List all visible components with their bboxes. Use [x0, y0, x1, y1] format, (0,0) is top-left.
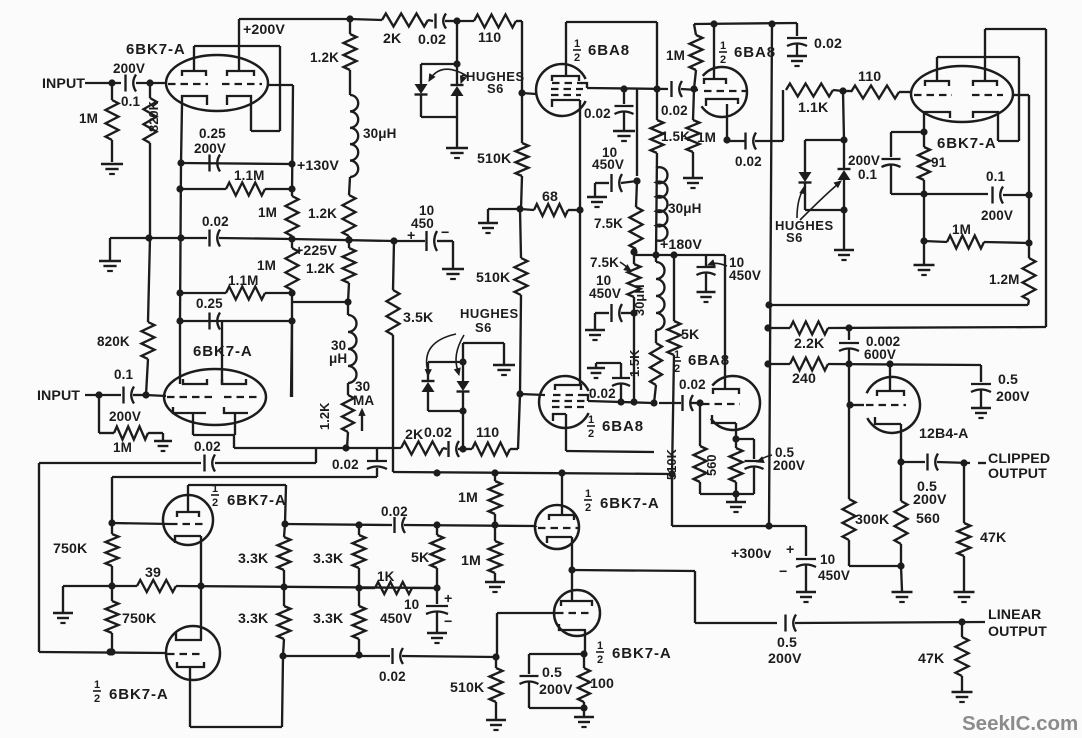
resistor 1K [359, 587, 375, 589]
inductor 30uH mid [656, 167, 667, 241]
svg-text:30μH: 30μH [632, 284, 647, 316]
svg-text:1.1K: 1.1K [798, 100, 829, 116]
tube U11 cathode [547, 537, 572, 543]
resistor 1.2K mid lower [343, 248, 356, 283]
tube U1 6BK7-A envelope [166, 55, 268, 111]
svg-text:1.2K: 1.2K [308, 206, 337, 221]
svg-text:OUTPUT: OUTPUT [988, 466, 1047, 482]
capacitor 0.5 200V U6 [736, 438, 754, 440]
resistor 1M 6BA8-2 cathode [693, 89, 694, 120]
svg-text:820K: 820K [146, 100, 161, 132]
svg-text:0.02: 0.02 [379, 669, 406, 684]
svg-text:1M: 1M [257, 258, 276, 273]
ground 47K clipped [954, 591, 975, 594]
capacitor 0.02 top-right bypass [796, 23, 798, 36]
svg-text:6BA8: 6BA8 [688, 352, 730, 369]
resistor 91 [923, 132, 925, 147]
svg-text:3.3K: 3.3K [238, 611, 269, 627]
ground 47K linear [952, 691, 973, 694]
svg-text:450V: 450V [592, 157, 624, 172]
resistor 1.2K mid upper [343, 195, 356, 236]
wire cathode ladder column [180, 163, 181, 321]
wire 1.1M row upper [180, 188, 226, 190]
tube U7 left plate [925, 81, 949, 86]
node input junction [108, 79, 115, 86]
resistor 39 [112, 585, 137, 587]
wire U11 grid [535, 526, 537, 527]
capacitor 0.1 right [991, 187, 993, 204]
wire U11 cathode out [572, 570, 695, 571]
svg-text:HUGHES: HUGHES [775, 218, 834, 233]
ground input 1 [101, 163, 123, 166]
svg-text:S6: S6 [487, 81, 504, 96]
svg-text:+: + [444, 591, 452, 607]
svg-text:−: − [444, 614, 452, 630]
tube U7 right cathode [973, 112, 998, 121]
svg-text:1M: 1M [79, 111, 98, 126]
svg-text:HUGHES: HUGHES [460, 306, 519, 321]
svg-text:0.1: 0.1 [121, 94, 140, 109]
ground 68 [487, 209, 489, 222]
svg-text:47K: 47K [980, 530, 1007, 546]
tube U10 grid dashes [167, 653, 204, 655]
svg-text:1: 1 [674, 349, 680, 361]
svg-text:110: 110 [858, 69, 881, 85]
svg-text:1.1M: 1.1M [234, 168, 264, 183]
wire 0.02 row +225V rail [110, 237, 207, 239]
wire grid ladder column [292, 85, 293, 196]
wire grid column 12B4 [848, 364, 850, 499]
svg-text:+: + [786, 542, 794, 558]
resistor 110 top [457, 20, 474, 22]
svg-text:47K: 47K [918, 651, 945, 667]
resistor 1.5K 6BA8-2 [656, 89, 658, 120]
wire fb box left [39, 462, 201, 464]
resistor 510K bottom [495, 657, 497, 668]
arrow to cap +180 [711, 263, 727, 266]
svg-text:200V: 200V [768, 651, 802, 667]
svg-text:0.02: 0.02 [589, 386, 616, 401]
arrow 7.5K [620, 262, 629, 269]
ground 1M drive [485, 581, 505, 584]
wire long B+ column [769, 24, 772, 526]
svg-text:0.02: 0.02 [679, 377, 706, 392]
svg-text:1: 1 [720, 40, 726, 52]
tube U8 12B4-A envelope [867, 377, 920, 433]
svg-text:6BK7-A: 6BK7-A [109, 686, 169, 703]
svg-text:LINEAR: LINEAR [988, 607, 1041, 623]
capacitor 0.02 to U6 grid [681, 395, 683, 411]
wire U6 cathode net bottom [700, 493, 754, 495]
resistor 3.3K d [353, 606, 366, 639]
svg-text:200V: 200V [109, 409, 141, 424]
wire up to 1.1K [782, 90, 784, 141]
resistor 1.1M upper [226, 183, 265, 196]
svg-text:1K: 1K [377, 569, 395, 584]
wire cathode feedback row [234, 447, 401, 449]
svg-text:2: 2 [588, 428, 594, 440]
tube U7 left cathode [924, 112, 950, 121]
tube U7 grid dashes [914, 94, 952, 96]
svg-text:1.1M: 1.1M [228, 273, 258, 288]
svg-text:100: 100 [590, 676, 614, 692]
capacitor 0.02 screen bypass [623, 89, 625, 104]
svg-text:3.3K: 3.3K [313, 551, 344, 567]
resistor 300K [843, 499, 856, 540]
tube U8 plate [877, 391, 904, 396]
capacitor 0.02 interstage [670, 81, 672, 97]
tube U12 plate [561, 601, 592, 606]
svg-text:−: − [441, 225, 449, 241]
diode S6-2b [457, 381, 470, 391]
wire 1.2M bottom row [769, 304, 1028, 306]
svg-text:1: 1 [585, 488, 591, 500]
ground U6 [735, 494, 737, 501]
capacitor 0.002 600V [848, 328, 850, 340]
wire screen row [587, 88, 668, 89]
resistor 68 [488, 208, 520, 210]
hughes S6 pair 2 [428, 361, 463, 363]
svg-text:1.2K: 1.2K [310, 50, 339, 65]
svg-text:1.2M: 1.2M [989, 272, 1019, 287]
wire U8 grid [850, 404, 864, 406]
tube U2 right plate [222, 379, 246, 384]
svg-text:1.2K: 1.2K [317, 402, 332, 430]
capacitor 10 450V bias2 [436, 588, 438, 604]
svg-text:1: 1 [588, 414, 594, 426]
svg-text:MA: MA [353, 393, 374, 408]
tube U3 half-6BA8 pentode [536, 64, 586, 116]
resistor 3.3K c [278, 606, 291, 639]
svg-text:12B4-A: 12B4-A [919, 426, 969, 442]
resistor 7.5K lower [633, 252, 635, 264]
capacitor 0.25 upper [208, 155, 210, 172]
tube U5 half-6BA8 pentode [539, 376, 589, 428]
capacitor 0.1 input 1 [124, 75, 126, 92]
svg-text:7.5K: 7.5K [594, 216, 623, 231]
tube U4 cathode [706, 99, 738, 106]
wire input 1 [85, 82, 121, 84]
svg-text:+200V: +200V [243, 22, 285, 38]
hughes S6 pair 1 [456, 21, 458, 64]
svg-text:240: 240 [792, 371, 816, 387]
wire U5 grid [520, 394, 545, 395]
ground 91 row [923, 241, 925, 264]
svg-text:6BK7-A: 6BK7-A [126, 41, 186, 58]
wire 820K to +225V rail [149, 143, 151, 238]
capacitor 10 450V row2 [621, 312, 634, 314]
wire U2 cathodes join [193, 434, 235, 436]
svg-text:110: 110 [478, 30, 501, 46]
svg-text:0.02: 0.02 [381, 504, 408, 519]
resistor 1M fb [924, 241, 947, 242]
svg-text:0.02: 0.02 [418, 32, 446, 48]
tube U12 cathode [559, 624, 586, 630]
capacitor 10 450V +180 [705, 255, 707, 266]
resistor 2.2K [790, 322, 828, 335]
capacitor 0.02 U5 bypass [620, 384, 622, 402]
wire fb box inner [111, 477, 113, 523]
wire 1M bottom jog [292, 301, 348, 303]
resistor 560 U6 [730, 448, 743, 482]
capacitor 0.02 ladder [208, 230, 210, 247]
svg-text:30μH: 30μH [363, 126, 396, 141]
wire linear output [695, 622, 777, 624]
svg-text:820K: 820K [97, 334, 130, 349]
resistor 240 [790, 358, 828, 371]
ground 300K 560 [892, 591, 913, 594]
svg-text:0.1: 0.1 [858, 167, 877, 182]
wire U9 grid [112, 523, 170, 524]
resistor 7.5K upper [636, 181, 637, 207]
capacitor 10 450 electrolytic [394, 240, 425, 242]
svg-text:0.02: 0.02 [202, 214, 229, 229]
tube U1 grid dashes [168, 83, 208, 85]
svg-text:0.1: 0.1 [114, 367, 133, 382]
svg-text:0.02: 0.02 [661, 103, 688, 118]
tube U12 half-6BK7 [554, 590, 600, 636]
svg-text:750K: 750K [122, 611, 157, 627]
tube U5 grid dashes [553, 394, 584, 396]
svg-text:0.02: 0.02 [194, 439, 221, 454]
wire interstage row [285, 524, 392, 525]
svg-text:0.1: 0.1 [986, 169, 1005, 184]
svg-text:6BA8: 6BA8 [734, 44, 776, 61]
svg-text:30: 30 [355, 379, 370, 394]
tube U1 left plate [182, 71, 206, 76]
resistor 1M 6BA8 2 grid [694, 24, 696, 35]
wire 300K 560 bottom [849, 565, 901, 567]
resistor 750K upper [111, 523, 113, 534]
diode S6-1b [451, 84, 464, 86]
svg-text:0.5: 0.5 [542, 665, 562, 681]
svg-text:200V: 200V [981, 208, 1013, 223]
svg-text:510K: 510K [476, 270, 511, 286]
diode S6-3b [838, 168, 851, 170]
wire 0.25 cap row [181, 163, 292, 164]
resistor 5K mid [673, 255, 675, 321]
resistor 3.3K a [284, 524, 285, 537]
svg-text:2: 2 [674, 363, 680, 375]
arrow to 0.5 cap [760, 455, 772, 460]
svg-text:2: 2 [597, 654, 603, 666]
svg-text:10: 10 [404, 597, 419, 612]
wire plate decoupling column [636, 89, 638, 176]
capacitor 0.02 bottom [391, 648, 393, 664]
svg-text:2: 2 [574, 52, 580, 64]
tube U4 plate [704, 79, 726, 84]
svg-text:+225V: +225V [295, 243, 337, 259]
hughes S6 pair 3 [843, 91, 844, 140]
ground S6 pair 2 link [462, 343, 464, 362]
svg-text:1M: 1M [461, 553, 481, 569]
tube U5 plate [555, 385, 581, 390]
capacitor 0.02 interstage 2 [393, 517, 395, 533]
capacitor 0.5 200V U12 [529, 653, 584, 655]
svg-text:6BK7-A: 6BK7-A [937, 135, 997, 152]
inductor 30uH col2 [655, 255, 657, 262]
wire 91 to 1M row [923, 194, 925, 241]
wire U7 plate-cathode loop [937, 56, 1019, 58]
tube U8 grid dashes [866, 404, 906, 406]
wire +200V to right plate [238, 19, 240, 71]
svg-text:68: 68 [542, 189, 558, 205]
wire 110 up to 510K [518, 394, 520, 449]
ground S6 pair 1 [446, 147, 468, 150]
wire U3 control grid [522, 93, 536, 94]
arrow to S6-2 diodes [427, 334, 456, 372]
ground input 2 [154, 440, 172, 443]
ground 0.02 row [109, 238, 111, 260]
resistor 2K lower [401, 442, 443, 455]
svg-text:510K: 510K [477, 151, 512, 167]
tube U9 half-6BK7 upper [163, 495, 213, 545]
svg-text:560: 560 [916, 511, 940, 527]
svg-text:750K: 750K [53, 541, 88, 557]
svg-text:1M: 1M [458, 490, 478, 506]
tube U2 grid dashes [167, 396, 212, 398]
svg-text:μH: μH [329, 351, 347, 366]
resistor 1M input 1 [111, 83, 113, 100]
svg-text:39: 39 [145, 565, 161, 581]
resistor 750K lower [106, 601, 119, 633]
svg-text:2: 2 [94, 693, 100, 705]
wire U7 right grid [1013, 94, 1029, 96]
tube U10 half-6BK7 lower [166, 626, 220, 680]
capacitor 10 450V +300 [805, 526, 807, 556]
svg-text:510K: 510K [450, 680, 485, 696]
resistor 1M drive a [494, 473, 496, 481]
svg-text:+180V: +180V [660, 237, 702, 253]
wire ladder to tube2 grid [291, 321, 292, 397]
svg-text:200V: 200V [113, 61, 145, 76]
wire bias row [891, 193, 988, 195]
wire +200V rail [239, 18, 350, 20]
diode S6-3a [799, 172, 812, 182]
resistor 1.2K plate 1 [349, 19, 351, 34]
svg-text:1: 1 [574, 38, 580, 50]
resistor 47K clipped [963, 463, 965, 523]
arrows to S6-3 [797, 190, 803, 218]
capacitor 0.02 top series [428, 20, 433, 21]
svg-text:450V: 450V [589, 286, 621, 301]
tube U7 right plate [973, 81, 997, 86]
wire 510K column top [521, 21, 523, 143]
wire +225V row right [292, 239, 394, 241]
wire U7 cathode bias row [891, 131, 924, 133]
wire 240 row [768, 363, 790, 365]
svg-text:6BA8: 6BA8 [588, 42, 630, 59]
svg-text:200V: 200V [539, 682, 573, 698]
wire U7 right plate top [985, 28, 1046, 30]
wire input 2 to grid [146, 395, 166, 396]
inductor 30uH plate 1 [350, 95, 358, 177]
svg-text:0.02: 0.02 [814, 36, 842, 52]
resistor 510K lower [520, 209, 521, 258]
svg-text:6BA8: 6BA8 [602, 418, 644, 435]
wire 0.25 cap row lower [180, 320, 292, 322]
capacitor 0.1 bias [882, 158, 901, 160]
resistor 1.1M lower [226, 287, 265, 300]
resistor 2K top [382, 14, 428, 27]
svg-text:0.02: 0.02 [584, 106, 611, 121]
wire S6 pair 1 bottom [421, 116, 457, 118]
svg-text:110: 110 [476, 425, 499, 441]
tube U3 screen hook [581, 83, 587, 88]
inductor 30uH 30MA [348, 315, 357, 383]
ground 1M [683, 177, 703, 180]
svg-text:3.5K: 3.5K [403, 310, 434, 326]
svg-text:200V: 200V [913, 492, 947, 508]
svg-text:+: + [407, 228, 415, 244]
svg-text:450V: 450V [729, 268, 761, 283]
svg-text:0.02: 0.02 [735, 154, 762, 169]
svg-text:2: 2 [720, 54, 726, 66]
resistor 3.5K [387, 290, 400, 335]
svg-text:0.5: 0.5 [998, 372, 1018, 388]
svg-text:1M: 1M [113, 440, 132, 455]
svg-text:6BK7-A: 6BK7-A [227, 492, 287, 509]
svg-text:6BK7-A: 6BK7-A [612, 645, 672, 662]
tube U9 plate [177, 512, 199, 517]
svg-text:2: 2 [212, 497, 218, 509]
tube U6 half-6BA8 envelope [711, 376, 760, 430]
wire bottom row [283, 655, 390, 657]
wire 1.1M row lower [180, 292, 226, 294]
svg-text:2K: 2K [383, 31, 402, 47]
tube U6 plate [713, 389, 739, 394]
wire col to screen row [633, 313, 635, 402]
capacitor 0.02 lower series [443, 448, 447, 449]
wire top rail right [694, 23, 797, 24]
tube U9 cathode [175, 536, 201, 543]
resistor 1M input 2 [98, 395, 100, 433]
svg-text:7.5K: 7.5K [590, 255, 619, 270]
arrow 30MA [361, 412, 363, 431]
capacitor 0.25 lower [208, 313, 210, 330]
svg-text:1: 1 [94, 679, 100, 691]
tube U10 cathode top [176, 633, 202, 640]
wire grid riser U11 [496, 613, 498, 657]
resistor 5K drive [436, 525, 438, 535]
tube U2 left cathode [173, 407, 206, 413]
resistor 1M drive b [489, 541, 502, 573]
svg-text:10: 10 [820, 552, 835, 567]
ground 510K bottom [486, 719, 506, 722]
svg-text:300K: 300K [855, 512, 890, 528]
svg-text:0.25: 0.25 [199, 126, 226, 141]
svg-text:1.2K: 1.2K [306, 261, 335, 276]
svg-text:S6: S6 [475, 320, 492, 335]
resistor 510K upper [516, 143, 529, 176]
resistor 510K U6 grid [699, 403, 701, 446]
tube U6 grid dashes [702, 403, 740, 405]
svg-text:450V: 450V [380, 611, 412, 626]
resistor 1.2M [1023, 258, 1036, 300]
tube U9 grid dashes [170, 523, 206, 525]
svg-text:200V: 200V [848, 153, 880, 168]
svg-text:30μH: 30μH [668, 201, 701, 216]
svg-text:200V: 200V [194, 141, 226, 156]
capacitor 10 450V screen [621, 181, 637, 183]
tube U3 cathode [552, 100, 580, 107]
resistor 1.1K [786, 84, 833, 97]
resistor 110 right [843, 90, 851, 92]
tube U4 grid dashes [704, 90, 748, 92]
resistor 3.3K b [358, 525, 360, 535]
svg-text:SeekIC.com: SeekIC.com [962, 712, 1078, 735]
tube U6 cathode [712, 415, 736, 423]
